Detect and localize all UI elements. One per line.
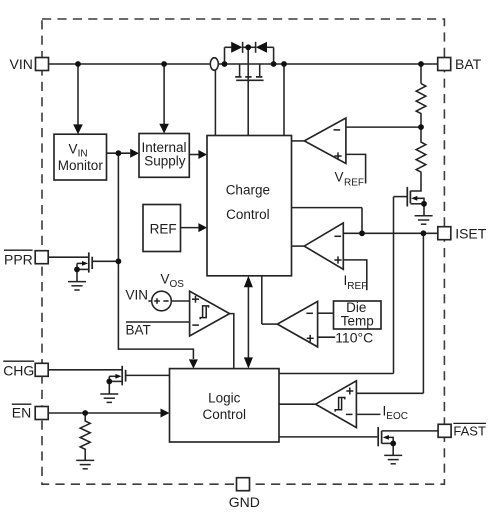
svg-text:Temp: Temp xyxy=(341,313,374,328)
svg-text:CHG: CHG xyxy=(3,362,34,378)
svg-text:110°C: 110°C xyxy=(335,329,373,345)
svg-text:BAT: BAT xyxy=(455,56,482,72)
svg-text:EN: EN xyxy=(12,405,31,421)
svg-text:Supply: Supply xyxy=(144,153,186,168)
svg-text:REF: REF xyxy=(344,178,364,189)
svg-text:Control: Control xyxy=(203,407,247,422)
svg-text:V: V xyxy=(161,272,170,287)
svg-text:OS: OS xyxy=(170,279,185,290)
svg-text:Monitor: Monitor xyxy=(58,158,104,173)
svg-text:BAT: BAT xyxy=(126,323,151,338)
svg-text:VIN: VIN xyxy=(126,288,149,303)
svg-text:Control: Control xyxy=(226,207,270,222)
svg-text:Charge: Charge xyxy=(226,183,270,198)
svg-text:IN: IN xyxy=(78,149,88,160)
svg-text:V: V xyxy=(335,170,344,185)
svg-text:V: V xyxy=(69,142,78,157)
svg-text:PPR: PPR xyxy=(4,252,33,268)
svg-text:REF: REF xyxy=(347,281,367,292)
svg-text:GND: GND xyxy=(229,494,260,510)
svg-text:ISET: ISET xyxy=(455,225,487,241)
svg-text:VIN: VIN xyxy=(10,56,33,72)
svg-text:REF: REF xyxy=(150,222,177,237)
svg-text:FAST: FAST xyxy=(453,423,486,438)
svg-text:Logic: Logic xyxy=(208,391,241,406)
svg-text:EOC: EOC xyxy=(386,411,408,422)
